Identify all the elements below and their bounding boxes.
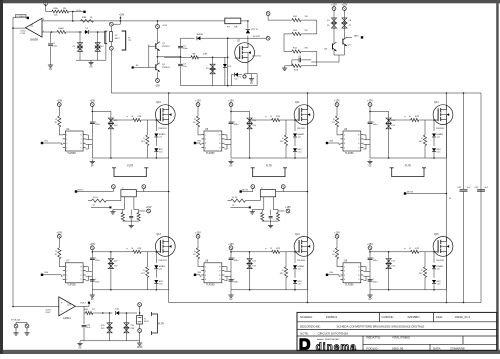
wire emitters — [156, 49, 158, 64]
wire IGBT source to rail — [445, 124, 447, 158]
svg-text:TLP250: TLP250 — [67, 284, 76, 287]
bracket FLTR row2 — [152, 314, 158, 333]
svg-text:47R: 47R — [276, 116, 280, 118]
svg-text:27/MAR/98: 27/MAR/98 — [450, 346, 465, 350]
wire IC output pins — [224, 134, 227, 136]
resistor ladder row1 — [292, 19, 301, 22]
svg-text:−: − — [61, 309, 63, 313]
node IN dot IN2 — [194, 142, 196, 144]
svg-text:+15V: +15V — [162, 25, 168, 27]
bracket FLTR cell — [253, 168, 285, 177]
resistor R30 — [133, 250, 141, 253]
diode D21 — [154, 280, 158, 283]
resistor R36 — [411, 250, 419, 253]
wire supply top link — [231, 251, 250, 253]
resistor R40 — [86, 311, 93, 314]
svg-text:-15V: -15V — [155, 84, 160, 87]
svg-text:FOGLIO:: FOGLIO: — [367, 346, 379, 350]
resistor R34 — [285, 252, 287, 267]
wire IN — [195, 142, 200, 144]
svg-text:COMAND: COMAND — [16, 15, 26, 18]
svg-text:2SK2611: 2SK2611 — [436, 128, 445, 130]
diode D20 — [155, 252, 157, 263]
capacitor C1 — [50, 32, 52, 43]
resistor R20 — [58, 116, 61, 127]
diode D15 — [293, 148, 297, 151]
svg-text:2SK2611: 2SK2611 — [158, 128, 167, 130]
connector sense bottom — [139, 324, 141, 329]
connector +15V P8 — [90, 246, 94, 250]
transistor Q9 — [342, 39, 344, 45]
wire Q7 drain — [247, 35, 249, 42]
svg-text:15V: 15V — [391, 125, 395, 127]
resistor R23 — [196, 116, 199, 127]
wire gate to IGBT — [419, 251, 433, 253]
svg-text:OUT2: OUT2 — [80, 303, 87, 305]
wire IN — [195, 274, 200, 276]
connector +15V P6 — [368, 103, 372, 107]
wire — [336, 238, 338, 248]
connector +15V P3 — [196, 103, 200, 107]
ground cell — [91, 290, 93, 293]
svg-text:0V: 0V — [49, 68, 52, 71]
svg-text:SCHEDA CONVERTITORE BRUSHLESS: SCHEDA CONVERTITORE BRUSHLESS SINUSOIDAL… — [337, 325, 425, 329]
zener pair ZD1 — [79, 32, 81, 43]
wire bottom zero rail — [84, 340, 140, 342]
svg-text:TLP250: TLP250 — [67, 152, 76, 155]
wire bottom loop — [181, 85, 258, 87]
wire IGBT drain to bus — [444, 236, 446, 238]
svg-text:2SK2611: 2SK2611 — [252, 56, 262, 58]
connector +15V P11 — [335, 234, 339, 238]
wire OUT — [347, 36, 352, 38]
capacitor C40 — [460, 189, 468, 191]
wire gate to IGBT — [141, 119, 155, 121]
svg-text:0360_96: 0360_96 — [392, 346, 404, 350]
wire IC output pins — [363, 266, 366, 268]
wire TP link — [15, 323, 17, 325]
transistor Q11 IGBT — [294, 105, 314, 125]
wire — [69, 11, 83, 13]
svg-text:+15V: +15V — [89, 243, 95, 246]
resistor R6 — [191, 56, 199, 59]
svg-text:TLP250: TLP250 — [345, 152, 354, 155]
wire gate vertical — [227, 38, 229, 85]
wire base bar — [148, 45, 150, 68]
wire cell bottom rail — [92, 289, 168, 291]
ground filter left — [112, 210, 114, 212]
zener pair Z10 — [110, 111, 112, 117]
wire IC output pins — [363, 134, 366, 136]
connector +15V P4 — [229, 103, 233, 107]
capacitor C18 — [229, 257, 234, 259]
title block row lines — [297, 321, 497, 323]
capacitor C12 — [229, 121, 234, 123]
node OUT dot — [361, 36, 363, 38]
wire top power rail — [111, 92, 481, 94]
svg-text:100n: 100n — [183, 48, 189, 50]
svg-text:TLP250: TLP250 — [345, 284, 354, 287]
wire filter drops — [123, 197, 125, 210]
svg-text:2SK2611: 2SK2611 — [158, 260, 167, 262]
wire cell bottom rail — [231, 289, 307, 291]
capacitor cell extra — [90, 279, 95, 281]
svg-text:MOC: MOC — [115, 38, 120, 40]
wire IGBT source to rail — [168, 256, 170, 290]
transistor Q13 IGBT — [155, 237, 175, 257]
svg-text:MOT2: MOT2 — [242, 189, 249, 191]
wire IGBT drain to bus — [444, 104, 446, 106]
svg-text:+15V: +15V — [56, 100, 62, 103]
node COMAND terminal dot — [27, 17, 29, 19]
svg-text:100n: 100n — [95, 124, 101, 126]
svg-text:FILE:: FILE: — [436, 315, 443, 319]
wire — [58, 106, 60, 116]
svg-text:15V: 15V — [391, 266, 395, 268]
drawing border frame bottom bar — [0, 350, 500, 354]
connector SP — [266, 36, 270, 40]
capacitor C16 — [90, 257, 95, 259]
resistor filter d1 — [121, 213, 124, 222]
node IN dot — [132, 66, 134, 68]
svg-text:R 1K: R 1K — [93, 197, 98, 199]
svg-text:15V: 15V — [114, 125, 118, 127]
ground filter mid — [262, 220, 278, 222]
node IN dot IN3 — [326, 142, 328, 144]
wire gate feed — [111, 119, 133, 121]
opto-driver U6 — [343, 131, 361, 151]
resistor R28 — [424, 120, 426, 135]
wire gate to IGBT — [141, 251, 155, 253]
svg-text:MOC: MOC — [144, 321, 149, 323]
transistor Q12 IGBT — [433, 105, 453, 125]
wire Q7 source to test point — [247, 62, 249, 73]
svg-text:DESCRIZIONE:: DESCRIZIONE: — [300, 325, 321, 329]
wire — [58, 127, 60, 135]
svg-text:BAT42: BAT42 — [197, 33, 204, 36]
resistor filter series — [88, 200, 92, 202]
wire sense chain — [139, 307, 141, 316]
wire down to top power rail — [110, 50, 112, 93]
svg-text:0V: 0V — [79, 347, 82, 350]
wire U1 input row A — [42, 20, 248, 22]
wire supply vertical — [369, 250, 371, 258]
wire emitter to gate resistor — [164, 56, 191, 58]
opto-driver U9 — [343, 263, 361, 283]
wire MOT2 to bus — [241, 191, 253, 193]
ground TP-a — [15, 331, 17, 333]
svg-text:100n: 100n — [234, 124, 240, 126]
title block column lines — [379, 312, 381, 321]
svg-text:1949A_01.2: 1949A_01.2 — [455, 315, 471, 319]
resistor R32 — [196, 248, 199, 259]
svg-text:42545B/1: 42545B/1 — [407, 315, 420, 319]
svg-text:R3B: R3B — [82, 17, 87, 19]
wire output run — [84, 312, 86, 314]
ground Q7 loop — [251, 77, 253, 79]
wire Q8 Q9 link — [333, 50, 335, 56]
svg-text:DATA:: DATA: — [433, 346, 441, 350]
svg-text:Q11: Q11 — [295, 101, 300, 104]
wire U1 output to bus — [13, 27, 26, 29]
diode D23 — [294, 252, 296, 263]
wire cell bottom rail — [370, 157, 446, 159]
svg-text:+15V: +15V — [331, 3, 337, 6]
svg-text:+15V: +15V — [146, 206, 152, 209]
capacitor C10 — [90, 121, 95, 123]
svg-text:47R: 47R — [137, 248, 141, 250]
svg-text:47R: 47R — [137, 116, 141, 118]
svg-text:10K: 10K — [54, 15, 58, 17]
diode D11 — [155, 120, 157, 131]
svg-text:FLTR: FLTR — [127, 164, 133, 167]
capacitor C2 — [178, 45, 183, 47]
zener pair Z14 — [249, 252, 251, 258]
svg-text:SCHEDA:: SCHEDA: — [300, 315, 313, 319]
op-amp U1 — [26, 18, 43, 37]
node MOT3 dot — [404, 192, 406, 194]
wire — [336, 259, 338, 267]
bracket FLTR cell — [114, 168, 146, 177]
connector filter b — [281, 185, 285, 189]
svg-text:CIRCUITI DI POTENZA: CIRCUITI DI POTENZA — [318, 332, 349, 336]
svg-text:0V: 0V — [250, 82, 253, 85]
bracket filter left — [105, 31, 107, 43]
svg-text:+15V: +15V — [76, 10, 82, 12]
ground ladder — [285, 65, 292, 67]
svg-text:FLTR: FLTR — [158, 323, 164, 326]
svg-text:100n: 100n — [373, 124, 379, 126]
connector TP-a — [14, 324, 18, 328]
svg-text:FLTR: FLTR — [405, 164, 411, 167]
svg-text:0V: 0V — [230, 165, 233, 168]
svg-text:+15V: +15V — [228, 100, 234, 103]
opto-driver U7 — [65, 263, 83, 283]
connector filter a — [251, 185, 255, 189]
diode D1 — [85, 30, 88, 34]
svg-text:0V: 0V — [91, 298, 94, 301]
zener pair ZD4 — [333, 18, 335, 29]
resistor R26 — [335, 116, 338, 127]
wire junction drop — [72, 12, 74, 21]
ground C1 — [50, 63, 52, 65]
wire supply top link — [92, 251, 111, 253]
resistor R37 — [424, 252, 426, 267]
svg-text:REDATTO:: REDATTO: — [367, 336, 382, 340]
resistor R2B — [61, 10, 69, 13]
wire IGBT source to rail — [306, 256, 308, 290]
svg-text:CODICE:: CODICE: — [382, 315, 394, 319]
svg-text:0V: 0V — [90, 66, 93, 69]
zener pair ZD5 — [343, 18, 345, 29]
capacitor cell extra — [229, 279, 234, 281]
svg-text:+15V: +15V — [228, 243, 234, 246]
wire SP EXT — [248, 37, 266, 39]
wire — [197, 127, 199, 135]
wire IGBT source to rail — [168, 124, 170, 158]
ground cell — [369, 290, 371, 293]
svg-text:100n: 100n — [373, 260, 379, 262]
wire gate feed — [389, 119, 411, 121]
wire — [58, 259, 60, 267]
wire IN — [327, 142, 339, 144]
svg-text:15V: 15V — [114, 120, 118, 122]
svg-text:+15V: +15V — [56, 231, 62, 234]
svg-text:100n: 100n — [95, 260, 101, 262]
svg-text:10R: 10R — [203, 53, 207, 55]
resistor ladder row2 — [292, 32, 301, 35]
svg-text:15V: 15V — [252, 261, 256, 263]
connector CN2-b — [110, 42, 112, 46]
connector +15V driver — [156, 25, 160, 29]
wire IGBT drain to bus — [167, 236, 169, 238]
diode D17 — [433, 120, 435, 131]
svg-text:LM311: LM311 — [63, 316, 71, 320]
node MOT1 dot — [75, 190, 77, 192]
connector +15V out-a — [332, 7, 336, 11]
svg-text:2SK2611: 2SK2611 — [297, 260, 306, 262]
wire cell bottom rail — [231, 157, 307, 159]
svg-text:-Y1S0: -Y1S0 — [20, 33, 26, 35]
wire phase bus 1 — [168, 93, 170, 303]
svg-text:100n: 100n — [373, 282, 379, 284]
wire y38 segment — [181, 37, 195, 39]
svg-text:+15V: +15V — [367, 243, 373, 246]
svg-text:BRESCIA ITALY: BRESCIA ITALY — [325, 338, 340, 341]
svg-text:47R: 47R — [415, 248, 419, 250]
svg-text:+15V: +15V — [285, 206, 291, 209]
node IN dot IN5 — [194, 274, 196, 276]
wire — [93, 312, 113, 314]
wire phase bus 3 — [445, 93, 447, 303]
resistor filter d1 — [261, 213, 264, 222]
capacitor C41 — [477, 189, 485, 191]
wire right rail B — [463, 93, 465, 189]
connector filter b — [142, 185, 146, 189]
ground TP-b — [26, 331, 28, 333]
svg-text:R2A: R2A — [53, 7, 58, 10]
svg-text:+15V: +15V — [119, 15, 125, 17]
connector +15V P12 — [368, 246, 372, 250]
ground cell — [369, 159, 371, 161]
ground cell — [230, 290, 232, 293]
svg-text:+15V: +15V — [195, 231, 201, 234]
resistor filter d2 — [137, 213, 140, 222]
wire ladder feed — [267, 15, 269, 20]
resistor R22 — [146, 120, 148, 135]
wire IN — [42, 142, 61, 144]
svg-text:15V: 15V — [391, 120, 395, 122]
wire gate feed — [111, 251, 133, 253]
connector +15V P9 — [196, 234, 200, 238]
resistor R27 — [411, 118, 419, 121]
wire feedback bus vertical left — [12, 17, 14, 306]
svg-text:Q10: Q10 — [156, 101, 161, 104]
resistor R29 — [58, 248, 61, 259]
wire — [156, 21, 158, 25]
svg-text:TP IA CN: TP IA CN — [11, 318, 20, 321]
wire U1 input row B — [42, 31, 52, 33]
resistor R13 — [292, 64, 301, 67]
wire filter to bus — [136, 191, 168, 193]
svg-text:JP30: JP30 — [137, 346, 143, 349]
connector +15V out-b — [343, 7, 347, 11]
wire gate feed — [250, 251, 272, 253]
svg-text:2SK2611: 2SK2611 — [436, 260, 445, 262]
wire — [336, 127, 338, 135]
wire IN — [327, 274, 339, 276]
svg-text:TLP250: TLP250 — [206, 152, 215, 155]
logo dinema D mark — [299, 338, 310, 350]
connector -15V driver — [156, 79, 160, 83]
wire IC output pins — [86, 134, 89, 136]
wire bottom power rail — [169, 302, 481, 304]
wire input B net — [52, 31, 57, 33]
wire top supply chain — [45, 9, 47, 12]
drawing border frame top bar — [0, 0, 500, 3]
svg-text:10R: 10R — [234, 27, 238, 29]
svg-text:Q12: Q12 — [434, 101, 439, 104]
svg-text:dinema: dinema — [316, 342, 357, 353]
capacitor filter mid — [130, 210, 132, 216]
wire supply vertical — [230, 250, 232, 258]
wire supply top link — [231, 110, 250, 112]
capacitor C20 — [368, 257, 373, 259]
svg-text:47R: 47R — [276, 248, 280, 250]
svg-text:15V: 15V — [391, 261, 395, 263]
connector CN3-a — [266, 12, 270, 16]
resistor R24 — [272, 118, 280, 121]
capacitor C31 — [83, 313, 85, 324]
resistor R25 — [285, 120, 287, 135]
title block frame — [297, 312, 497, 350]
resistor ladder row3 — [292, 50, 301, 53]
svg-text:TLP250: TLP250 — [206, 284, 215, 287]
wire U3 output — [75, 305, 84, 307]
bracket filter right FLTR — [122, 31, 126, 50]
wire ladder loop left — [283, 34, 285, 52]
wire cell bottom rail — [370, 289, 446, 291]
zener pair ZD3 — [212, 57, 214, 64]
zener pair Z12 — [388, 111, 390, 117]
resistor R21 — [133, 118, 141, 121]
svg-text:-15V2: -15V2 — [45, 312, 51, 314]
diode D4 LED — [235, 73, 238, 77]
ground cell — [91, 159, 93, 161]
wire gate to IGBT — [419, 119, 433, 121]
wire cell bottom rail — [92, 157, 168, 159]
resistor R3 input row — [81, 20, 94, 23]
wire IGBT source to rail — [445, 256, 447, 290]
svg-text:ERA91: ERA91 — [298, 133, 305, 136]
zener pair Z15 — [388, 252, 390, 258]
zener pair Z13 — [110, 252, 112, 258]
svg-text:U3: U3 — [67, 302, 71, 306]
bracket FLTR cell — [392, 168, 424, 177]
svg-text:100n: 100n — [52, 46, 58, 48]
svg-text:15V: 15V — [114, 266, 118, 268]
node top supply dot — [83, 11, 85, 13]
wire supply top link — [92, 110, 111, 112]
wire supply vertical — [369, 106, 371, 121]
wire COMAND to feedback bus — [13, 16, 15, 18]
wire supply top link — [370, 110, 389, 112]
connector filter a — [112, 185, 116, 189]
svg-text:0V: 0V — [369, 165, 372, 168]
svg-text:+15V: +15V — [367, 100, 373, 103]
connector filter out — [139, 210, 145, 212]
diode D2 BAT42 — [197, 36, 200, 40]
